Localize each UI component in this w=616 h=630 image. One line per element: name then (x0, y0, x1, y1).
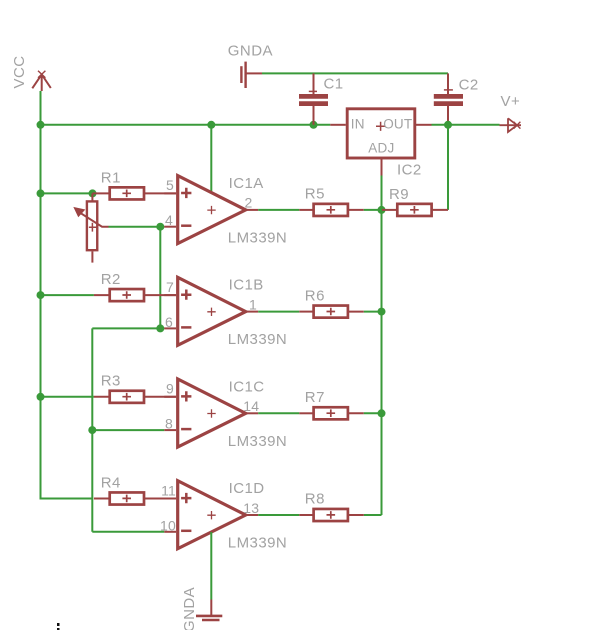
supply symbol V+ (500, 118, 522, 132)
svg-text:13: 13 (243, 500, 259, 516)
lead R4 to gate (144, 498, 176, 500)
svg-text:OUT: OUT (383, 116, 412, 131)
wire bus down to IC1A (210, 125, 212, 193)
lead R1 to pin 5 (144, 192, 176, 194)
lead R8 right (348, 514, 364, 516)
junction ADJ net at R7 (378, 409, 386, 417)
resistor R3 (110, 391, 144, 403)
wire ADJ net vertical (381, 176, 383, 516)
wire OUT to V+ (432, 124, 500, 126)
supply symbol GNDA top (241, 62, 262, 88)
capacitor C2 (434, 73, 463, 124)
svg-text:C2: C2 (459, 77, 479, 94)
resistor R7 (314, 407, 348, 419)
junction OUT and C2 (444, 121, 452, 129)
junction wiper net (156, 223, 164, 231)
svg-text:R1: R1 (101, 169, 121, 186)
resistor R1 (110, 187, 144, 199)
lead R7 left (299, 412, 313, 414)
svg-text:C1: C1 (324, 76, 344, 93)
junction ADJ net at R5 (378, 206, 386, 214)
junction rail row1 (37, 189, 45, 197)
junction bus at VCC rail (37, 121, 45, 129)
wire rail to R1 (41, 192, 93, 194)
lead R7 right (348, 412, 364, 414)
comparator IC1A (164, 176, 258, 244)
resistor R5 (314, 204, 348, 216)
wire IC1A output to R5 (258, 209, 299, 211)
lead R8 left (299, 514, 313, 516)
junction pin 8 net (88, 426, 96, 434)
lead R5 left (299, 209, 313, 211)
svg-text:R9: R9 (389, 186, 409, 203)
junction bus at C1 (310, 121, 318, 129)
svg-text:10: 10 (160, 517, 176, 533)
wire R5 to ADJ net (364, 209, 382, 211)
lead R9 right (432, 209, 448, 211)
svg-text:LM339N: LM339N (228, 331, 287, 348)
svg-text:R8: R8 (305, 491, 325, 508)
svg-text:9: 9 (166, 381, 174, 397)
junction rail row2 (37, 291, 45, 299)
wire R6 to ADJ net (364, 311, 382, 313)
svg-text:IC1D: IC1D (229, 480, 265, 497)
lead R3 left (94, 396, 110, 398)
resistor R6 (314, 306, 348, 318)
svg-text:IC1A: IC1A (229, 175, 264, 192)
svg-text:IN: IN (351, 116, 365, 131)
svg-text:5: 5 (166, 177, 174, 193)
supply symbol VCC (32, 71, 51, 91)
junction bus to IC1A (207, 121, 215, 129)
svg-text:4: 4 (165, 212, 173, 228)
junction ADJ net at R6 (378, 308, 386, 316)
wire rail corner to R4 (41, 497, 93, 500)
svg-text:LM339N: LM339N (228, 229, 287, 246)
svg-text:IC1B: IC1B (229, 277, 264, 294)
junction pin 6 net (156, 324, 164, 332)
wire rail to R3 (41, 396, 94, 398)
wire pin 6 net horizontal (92, 327, 164, 329)
svg-text:R5: R5 (305, 186, 325, 203)
svg-text:R6: R6 (305, 287, 325, 304)
wire pin 10 net horizontal (92, 531, 164, 533)
lead R6 right (348, 311, 364, 313)
capacitor C1 (299, 73, 328, 124)
junction rail row3 (37, 393, 45, 401)
wire main bus horizontal (41, 124, 331, 126)
wire IC1D to GNDA (210, 532, 212, 600)
resistor R4 (110, 492, 144, 504)
lead R6 left (299, 311, 313, 313)
wire C2 junction down to R9 (447, 125, 449, 210)
svg-text:IC2: IC2 (397, 162, 422, 179)
svg-text:LM339N: LM339N (228, 433, 287, 450)
comparator IC1B (164, 277, 258, 345)
wire rail to R2 (41, 294, 94, 296)
lead R9 left (382, 209, 397, 211)
lead R3 to gate (144, 396, 176, 398)
wire wiper net down to pin 6 net (159, 227, 161, 329)
resistor R9 (397, 204, 431, 216)
wire GNDA net horizontal (262, 72, 448, 74)
voltage regulator IC2 (330, 109, 431, 176)
trimmer potentiometer (74, 193, 108, 262)
supply symbol GNDA bottom (196, 600, 222, 621)
resistor R2 (110, 289, 144, 301)
svg-text:7: 7 (166, 279, 174, 295)
svg-text:2: 2 (245, 195, 253, 211)
comparator IC1D (164, 481, 258, 549)
svg-text:R3: R3 (101, 373, 121, 390)
junction R1 and trimmer (89, 189, 97, 197)
wire ADJ net to R8 (364, 514, 382, 516)
svg-text:IC1C: IC1C (229, 378, 265, 395)
comparator IC1C (164, 379, 258, 447)
wire IC1C output to R7 (258, 412, 299, 414)
lead R4 left (94, 498, 110, 500)
svg-text:LM339N: LM339N (228, 535, 287, 552)
svg-text:ADJ: ADJ (368, 141, 394, 156)
svg-text:6: 6 (165, 314, 173, 330)
svg-text:1: 1 (249, 296, 257, 312)
lead R2 to gate (144, 294, 176, 296)
svg-text:GNDA: GNDA (181, 587, 198, 630)
wire IC1B output to R6 (258, 311, 299, 313)
wire trimmer wiper to pin 4 (109, 226, 165, 228)
svg-text:11: 11 (161, 482, 176, 498)
lead R2 left (94, 294, 110, 296)
wire pin 8 net horizontal (92, 429, 164, 431)
wire R7 to ADJ net (364, 412, 382, 414)
svg-text:VCC: VCC (11, 55, 28, 88)
origin mark (57, 623, 60, 630)
svg-text:GNDA: GNDA (228, 42, 273, 59)
wire VCC rail vertical (40, 91, 42, 499)
lead R1 left (93, 192, 110, 194)
svg-text:R7: R7 (305, 389, 325, 406)
svg-text:R4: R4 (101, 474, 121, 491)
resistor R8 (314, 509, 348, 521)
svg-text:V+: V+ (501, 93, 521, 110)
svg-text:R2: R2 (101, 271, 121, 288)
svg-text:14: 14 (243, 398, 259, 414)
svg-text:8: 8 (165, 416, 173, 432)
wire left inner vertical (91, 328, 93, 531)
lead R5 right (348, 209, 364, 211)
wire IC1D output to R8 (258, 514, 299, 516)
